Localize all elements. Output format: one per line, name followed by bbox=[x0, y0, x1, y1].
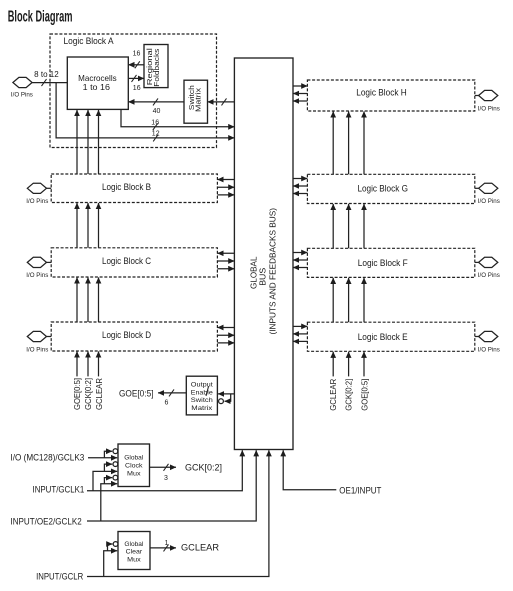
svg-text:40: 40 bbox=[153, 108, 161, 115]
svg-text:I/O Pins: I/O Pins bbox=[26, 346, 48, 353]
logic block C dashed outline bbox=[51, 248, 217, 277]
wire bus to block D bbox=[217, 327, 234, 329]
logic block B dashed outline bbox=[51, 174, 217, 203]
wire bus to block F bbox=[293, 252, 307, 254]
svg-text:BUS: BUS bbox=[258, 267, 268, 285]
svg-text:Logic Block C: Logic Block C bbox=[102, 256, 152, 266]
wire GCK global line right into block H bbox=[348, 111, 350, 174]
wire OE1/INPUT to global bus riser bbox=[283, 450, 336, 490]
bus slash on I/O wire A bbox=[42, 79, 47, 86]
wire GCLEAR global line right into block E bbox=[332, 352, 334, 377]
wire GCK[0:2] output of clock mux bbox=[150, 466, 177, 468]
svg-text:I/O Pins: I/O Pins bbox=[478, 105, 500, 112]
logic block G dashed outline bbox=[307, 174, 474, 203]
svg-text:Foldbacks: Foldbacks bbox=[152, 48, 161, 86]
svg-text:Matrix: Matrix bbox=[194, 88, 203, 112]
logic block H dashed outline bbox=[307, 80, 474, 111]
wire OE2/GCLK2 branch to inverted input bbox=[104, 478, 112, 484]
svg-text:16: 16 bbox=[133, 50, 141, 57]
bus slash on GCLEAR output bbox=[164, 544, 169, 551]
wire GCLEAR global line into block B bbox=[98, 203, 100, 248]
wire bus to block E bbox=[293, 325, 307, 327]
wire block B to bus lower bbox=[217, 194, 234, 196]
wire hexagon E stub bbox=[475, 336, 479, 338]
svg-text:I/O Pins: I/O Pins bbox=[26, 198, 48, 205]
wire GCLK3 into clock mux bbox=[88, 457, 117, 459]
svg-text:1: 1 bbox=[165, 540, 169, 547]
wire GOE global line into block D bbox=[76, 351, 78, 376]
svg-text:1 to 16: 1 to 16 bbox=[83, 82, 111, 92]
wire GCLR branch to inverted input bbox=[108, 544, 113, 551]
wire global bus to switch matrix bbox=[208, 101, 235, 103]
wire bus to OE switch matrix lower via bubble bbox=[225, 394, 231, 401]
wire block G to bus lower bbox=[293, 193, 307, 195]
svg-text:I/O Pins: I/O Pins bbox=[26, 272, 48, 279]
wire GCK global line into block B bbox=[87, 203, 89, 248]
svg-text:16: 16 bbox=[151, 120, 159, 127]
inverter bubble clock mux input 2 bbox=[113, 462, 118, 467]
wire block F to bus upper bbox=[293, 259, 307, 261]
svg-text:GOE[0:5]: GOE[0:5] bbox=[72, 378, 82, 410]
wire bus to block C bbox=[217, 252, 234, 254]
svg-text:Logic Block A: Logic Block A bbox=[64, 36, 114, 46]
svg-text:Logic Block B: Logic Block B bbox=[102, 182, 151, 192]
wire block C to bus upper bbox=[217, 260, 234, 262]
wire block E to bus lower bbox=[293, 340, 307, 342]
svg-text:Mux: Mux bbox=[127, 470, 141, 477]
wire GOE global line right into block E bbox=[363, 352, 365, 377]
svg-text:Clock: Clock bbox=[125, 462, 143, 469]
svg-text:8 to 12: 8 to 12 bbox=[34, 70, 59, 79]
wire GCK global line left segment into macrocells bbox=[87, 110, 89, 174]
wire GCLK1 branch to inverted input bbox=[104, 464, 112, 471]
svg-text:INPUT/GCLR: INPUT/GCLR bbox=[36, 571, 84, 581]
svg-text:GCLEAR: GCLEAR bbox=[181, 543, 220, 553]
svg-text:INPUT/GCLK1: INPUT/GCLK1 bbox=[33, 485, 85, 495]
wire GCLEAR global line right into block G bbox=[332, 204, 334, 248]
wire INPUT/GCLR to global bus riser bbox=[87, 450, 269, 576]
svg-text:I/O (MC128)/GCLK3: I/O (MC128)/GCLK3 bbox=[11, 453, 85, 463]
global bus box bbox=[234, 58, 293, 450]
svg-text:INPUT/OE2/GCLK2: INPUT/OE2/GCLK2 bbox=[11, 516, 82, 526]
svg-text:Logic Block E: Logic Block E bbox=[358, 332, 408, 342]
I/O pins hexagon G bbox=[479, 183, 498, 193]
svg-text:(INPUTS AND FEEDBACKS BUS): (INPUTS AND FEEDBACKS BUS) bbox=[268, 208, 278, 335]
inverter bubble clear mux input bbox=[113, 542, 118, 547]
wire GCK global line right into block E bbox=[348, 352, 350, 377]
wire block D to bus upper bbox=[217, 334, 234, 336]
wire GOE global line left segment into macrocells bbox=[76, 110, 78, 174]
svg-text:GCK[0:2]: GCK[0:2] bbox=[185, 463, 222, 473]
wire block F to bus lower bbox=[293, 267, 307, 269]
wire GCLEAR global line into block D bbox=[98, 351, 100, 376]
wire GCLK3 branch to inverted input bbox=[104, 451, 112, 458]
logic block D dashed outline bbox=[51, 322, 217, 351]
wire INPUT/OE2/GCLK2 to global bus riser bbox=[87, 450, 256, 521]
wire GCK global line right into block F bbox=[348, 278, 350, 322]
wire bus to block G bbox=[293, 178, 307, 180]
wire GCLR riser to clear mux bbox=[104, 551, 118, 577]
global clock mux box bbox=[118, 444, 150, 487]
bus slash on foldback-in wire bbox=[135, 61, 140, 68]
wire hexagon H stub bbox=[475, 95, 479, 97]
svg-text:I/O Pins: I/O Pins bbox=[478, 198, 500, 205]
wire GOE global line right into block G bbox=[363, 204, 365, 248]
bus slash artifact over Enable bbox=[206, 387, 209, 397]
svg-text:Logic Block H: Logic Block H bbox=[356, 87, 407, 97]
wire GCLEAR global line left segment into macrocells bbox=[98, 110, 100, 174]
macrocells box U-MC bbox=[67, 57, 128, 109]
wire block H to bus upper bbox=[293, 93, 307, 95]
wire GCLEAR global line right into block H bbox=[332, 111, 334, 174]
svg-text:12: 12 bbox=[152, 130, 160, 137]
svg-text:Global: Global bbox=[124, 454, 144, 461]
wire GCLK1 riser to clock mux bbox=[93, 471, 117, 490]
bus slash on 16 feedback wire bbox=[153, 123, 158, 130]
wire block G to bus upper bbox=[293, 185, 307, 187]
inverter bubble on OE switch matrix input bbox=[219, 399, 224, 404]
svg-text:Logic Block G: Logic Block G bbox=[357, 184, 408, 194]
wire GCK global line into block C bbox=[87, 277, 89, 322]
output enable switch matrix box bbox=[186, 376, 217, 415]
wire GOE global line right into block F bbox=[363, 278, 365, 322]
svg-text:Global: Global bbox=[124, 541, 144, 548]
wire bus to block H bbox=[293, 85, 307, 87]
svg-text:OE1/INPUT: OE1/INPUT bbox=[339, 485, 382, 495]
wire GCLEAR output of clear mux bbox=[150, 547, 176, 549]
I/O pins hexagon H bbox=[479, 90, 498, 100]
wire GOE[0:5] output of OE switch matrix bbox=[158, 392, 186, 394]
I/O pins hexagon A bbox=[13, 77, 32, 87]
wire hexagon F stub bbox=[475, 261, 479, 263]
svg-text:GOE[0:5]: GOE[0:5] bbox=[359, 379, 369, 411]
svg-text:Logic Block D: Logic Block D bbox=[102, 330, 151, 340]
bus slash on 40 wire bbox=[153, 98, 158, 105]
wire bus to block B bbox=[217, 179, 234, 181]
wire block D to bus lower bbox=[217, 342, 234, 344]
bus slash on bus-to-switch wire bbox=[222, 98, 227, 105]
svg-text:3: 3 bbox=[164, 475, 168, 482]
svg-text:Logic Block F: Logic Block F bbox=[358, 258, 409, 268]
wire regional foldbacks to macrocells (16) bbox=[128, 64, 144, 66]
logic block E dashed outline bbox=[307, 322, 474, 351]
bus slash on GCK output bbox=[164, 464, 169, 471]
bus slash on 12 wire bbox=[153, 134, 158, 141]
I/O pins hexagon B bbox=[27, 183, 46, 193]
svg-text:Switch: Switch bbox=[191, 397, 213, 404]
wire GCLEAR global line right into block F bbox=[332, 278, 334, 322]
wire bus to OE switch matrix upper bbox=[218, 393, 234, 395]
I/O pins hexagon D bbox=[27, 331, 46, 341]
bus slash on GOE output bbox=[169, 389, 174, 396]
svg-text:Matrix: Matrix bbox=[191, 405, 213, 412]
wire OE2/GCLK2 riser to clock mux bbox=[101, 484, 117, 521]
wire GCK global line right into block G bbox=[348, 204, 350, 248]
svg-text:Mux: Mux bbox=[127, 556, 141, 563]
wire GOE global line right into block H bbox=[363, 111, 365, 174]
svg-text:GCLEAR: GCLEAR bbox=[94, 378, 104, 410]
wire block E to bus upper bbox=[293, 333, 307, 335]
wire macrocells to regional foldbacks (16) bbox=[128, 77, 144, 79]
svg-text:Block Diagram: Block Diagram bbox=[8, 8, 73, 25]
wire GOE global line into block B bbox=[76, 203, 78, 248]
global clear mux box bbox=[118, 532, 150, 570]
logic block F dashed outline bbox=[307, 248, 474, 277]
wire hexagon A to macrocells bbox=[32, 82, 67, 84]
regional foldbacks box bbox=[144, 45, 168, 88]
inverter bubble clock mux input 1 bbox=[113, 449, 118, 454]
inverter bubble clock mux input 3 bbox=[113, 475, 118, 480]
logic block A dashed outline bbox=[50, 34, 217, 148]
wire GCK global line into block D bbox=[87, 351, 89, 376]
switch matrix box bbox=[184, 80, 208, 123]
wire block H to bus lower bbox=[293, 100, 307, 102]
svg-text:GCLEAR: GCLEAR bbox=[328, 379, 338, 411]
wire GOE global line into block C bbox=[76, 277, 78, 322]
wire hexagon D stub bbox=[47, 336, 52, 338]
svg-text:Output: Output bbox=[191, 382, 213, 389]
wire block C to bus lower bbox=[217, 268, 234, 270]
svg-text:6: 6 bbox=[165, 400, 169, 407]
svg-text:I/O Pins: I/O Pins bbox=[11, 91, 33, 98]
svg-text:GCK[0:2]: GCK[0:2] bbox=[83, 378, 93, 410]
svg-text:16: 16 bbox=[133, 85, 141, 92]
wire hexagon G stub bbox=[475, 187, 479, 189]
I/O pins hexagon E bbox=[479, 331, 498, 341]
wire switch matrix to macrocells (40) bbox=[128, 101, 184, 103]
wire INPUT/GCLK1 to global bus riser bbox=[87, 450, 242, 491]
I/O pins hexagon F bbox=[479, 257, 498, 267]
bus slash on foldback-out wire bbox=[132, 75, 137, 82]
svg-text:GOE[0:5]: GOE[0:5] bbox=[119, 388, 154, 398]
wire block B to bus upper bbox=[217, 186, 234, 188]
wire I/O inputs 12 to global bus bbox=[56, 83, 234, 138]
wire hexagon B stub bbox=[47, 187, 52, 189]
svg-text:Enable: Enable bbox=[191, 389, 213, 396]
wire GCLEAR global line into block C bbox=[98, 277, 100, 322]
svg-text:GCK[0:2]: GCK[0:2] bbox=[344, 379, 354, 411]
svg-text:I/O Pins: I/O Pins bbox=[478, 346, 500, 353]
svg-text:Clear: Clear bbox=[126, 549, 143, 556]
wire hexagon C stub bbox=[47, 261, 52, 263]
svg-text:I/O Pins: I/O Pins bbox=[478, 272, 500, 279]
I/O pins hexagon C bbox=[27, 257, 46, 267]
wire macrocells feedback 16 to global bus bbox=[121, 109, 234, 126]
